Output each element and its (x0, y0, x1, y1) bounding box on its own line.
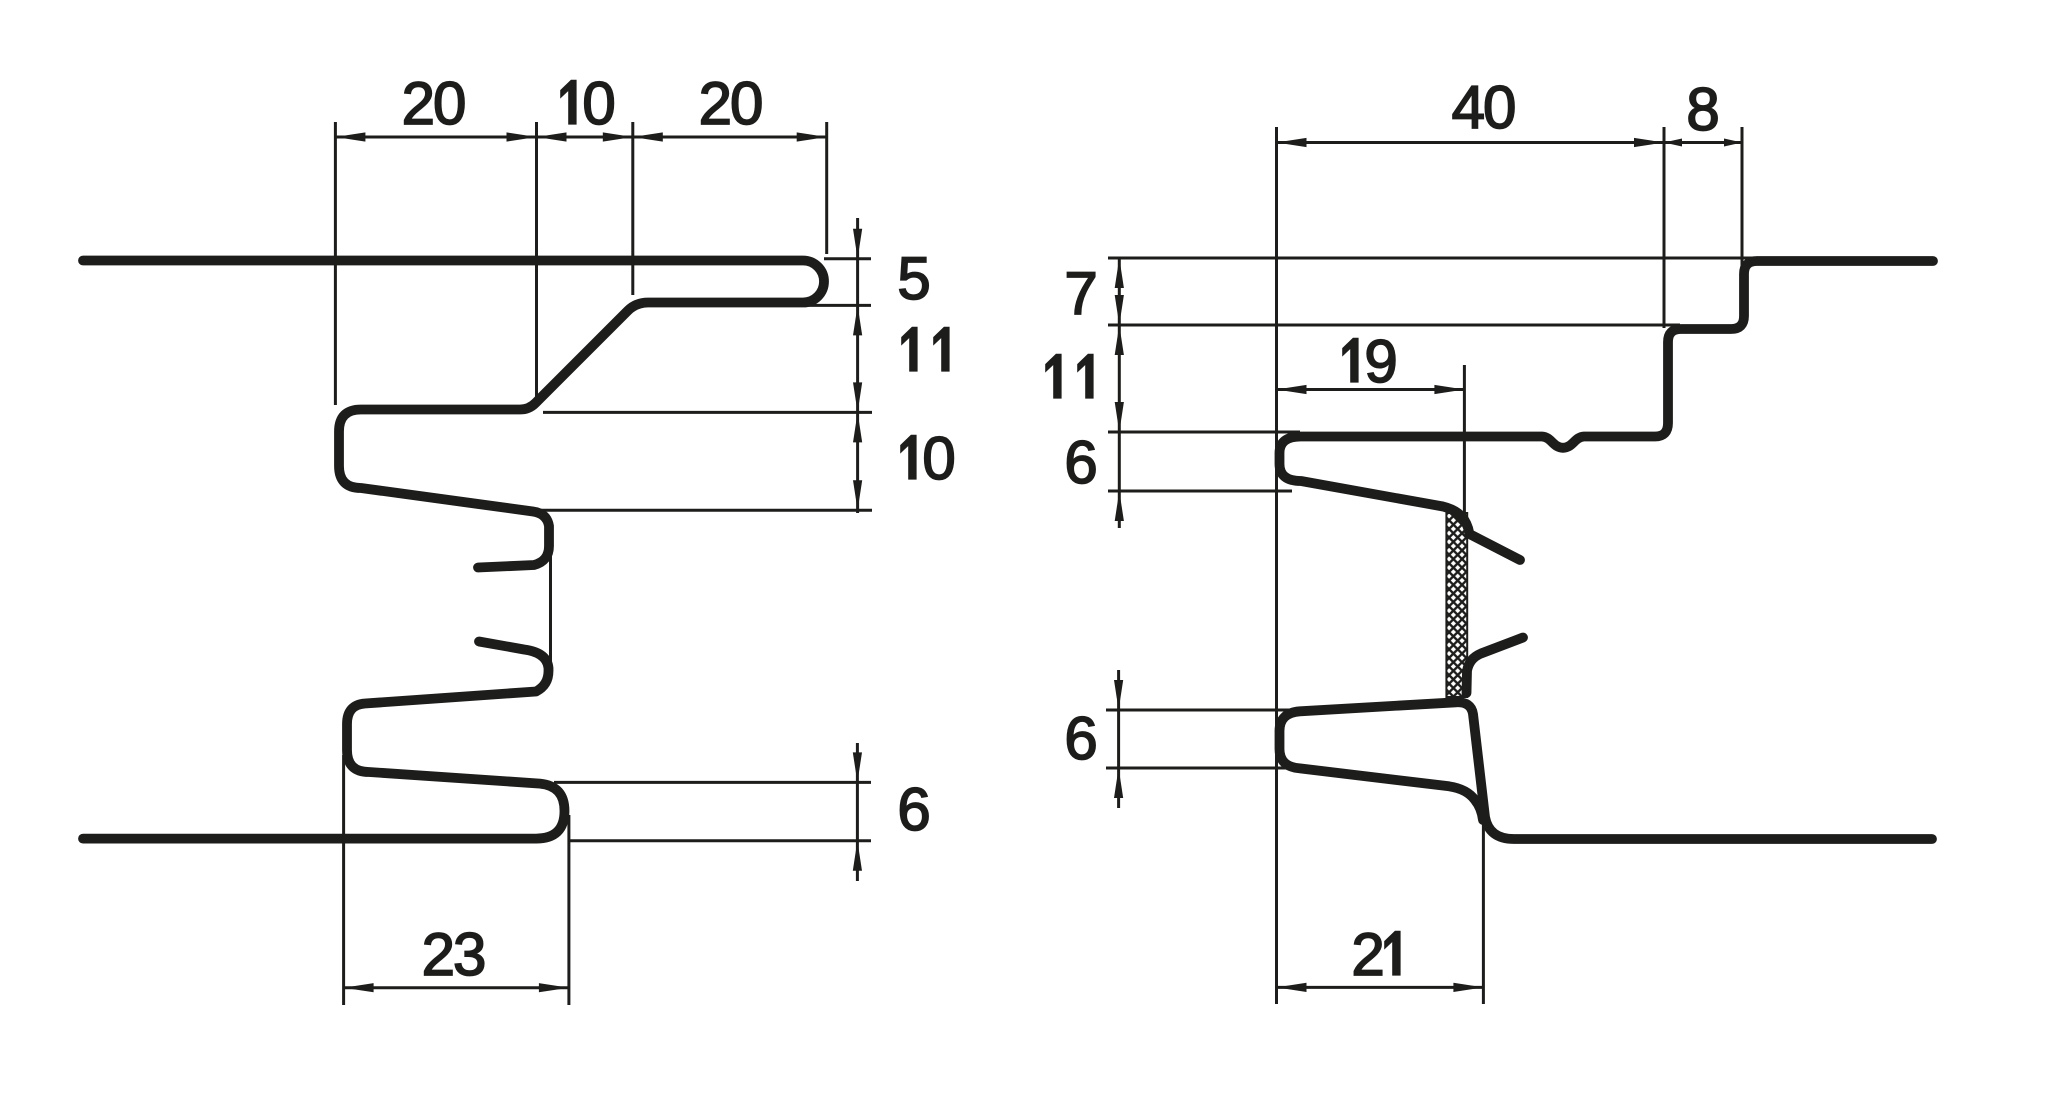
left profile lower sheet: barb, stadium bend, bottom surface (83, 642, 565, 839)
arrowheads 7/11/6 upper (1115, 258, 1124, 288)
arrowheads top dim 10 (537, 132, 567, 141)
bottom dimension line 23 (344, 986, 569, 989)
arrowheads 40 (1277, 138, 1307, 147)
right profile lower sheet: bottom surface, riser, gasket pocket, U-turn, shelf end (1280, 702, 1933, 839)
reference line y=305.4 (808, 304, 871, 307)
svg-text:20: 20 (402, 70, 465, 137)
top dimension line (335, 136, 826, 139)
left vertical dimension line upper (1118, 258, 1121, 528)
dimension line 19 (1277, 388, 1465, 391)
reference line y=782.4 (554, 781, 871, 784)
extension line x=1742 (1741, 127, 1744, 300)
arrowheads right vertical dims 5/11/10 (853, 229, 862, 259)
bottom dimension line 21 (1277, 986, 1484, 989)
extension line x=632.8 (631, 122, 634, 295)
right vertical dimension line (856, 218, 859, 513)
left figure dimension texts (402, 70, 955, 988)
arrowheads 23 (344, 983, 374, 992)
arrowheads 8 (short) (1664, 139, 1682, 147)
arrowheads lower 6 (1114, 680, 1123, 710)
svg-text:6: 6 (897, 776, 928, 843)
right figure dimension texts (1046, 74, 1718, 988)
reference line y=258 (1108, 257, 1756, 260)
reference line y=412.4 (543, 411, 872, 414)
arrowheads 21 (1277, 983, 1307, 992)
right profile upper sheet: top surface, double step, shelf with drip notch, U-turn, gasket barb (1280, 261, 1934, 560)
label 19 (1343, 338, 1358, 382)
extension line x=1664 (1663, 127, 1666, 328)
svg-text:40: 40 (1452, 74, 1515, 141)
reference line y=710 (1106, 709, 1292, 712)
svg-text:9: 9 (1364, 328, 1395, 395)
reference line y=510.3 (540, 509, 872, 512)
label 11 (1046, 354, 1061, 398)
label 10 (561, 80, 576, 124)
left profile upper sheet: top surface, seam U-turn, 45deg web, stadium bend, hook barb (83, 261, 824, 568)
svg-text:20: 20 (699, 70, 762, 137)
gasket strip with cross hatch (1446, 513, 1467, 697)
reference line y=768 (1106, 767, 1292, 770)
arrowheads top dim right 20 (633, 132, 663, 141)
extension line x=826.7 (825, 122, 828, 254)
svg-text:6: 6 (1064, 429, 1095, 496)
svg-text:23: 23 (422, 921, 485, 988)
reference line y=325 (1108, 324, 1680, 327)
svg-text:0: 0 (582, 70, 614, 137)
left profile thin fold line (549, 540, 552, 663)
reference line y=491 (1108, 490, 1292, 493)
reference line y=258.7 (824, 257, 871, 260)
arrowheads 6 (853, 752, 862, 782)
extension line x=335 (334, 122, 337, 405)
left vertical dimension line lower 6 (1117, 670, 1120, 808)
svg-text:6: 6 (1064, 705, 1095, 772)
extension line x=1464.4 (1463, 365, 1466, 515)
extension line x=1276.5 full height (1275, 127, 1278, 1004)
extension line x=343.6 (342, 755, 345, 1005)
reference line y=840.8 (568, 839, 871, 842)
top dimension line 40/8 (1277, 141, 1743, 144)
extension line x=1483.4 (1482, 822, 1485, 1004)
svg-text:0: 0 (922, 425, 954, 492)
label 10 (901, 435, 916, 479)
svg-text:8: 8 (1686, 76, 1717, 143)
svg-text:5: 5 (897, 245, 928, 312)
arrowheads top dim left 20 (335, 132, 365, 141)
svg-text:7: 7 (1064, 260, 1095, 327)
extension line x=568.9 (567, 815, 570, 1005)
vertical dimension line for 6 (856, 743, 859, 881)
svg-text:2: 2 (1351, 921, 1382, 988)
reference line y=432 (1108, 431, 1300, 434)
extension line x=536.5 (535, 122, 538, 405)
arrowheads 19 (1277, 385, 1307, 394)
right profile lower barb (1467, 638, 1524, 694)
label 11 (902, 327, 917, 371)
